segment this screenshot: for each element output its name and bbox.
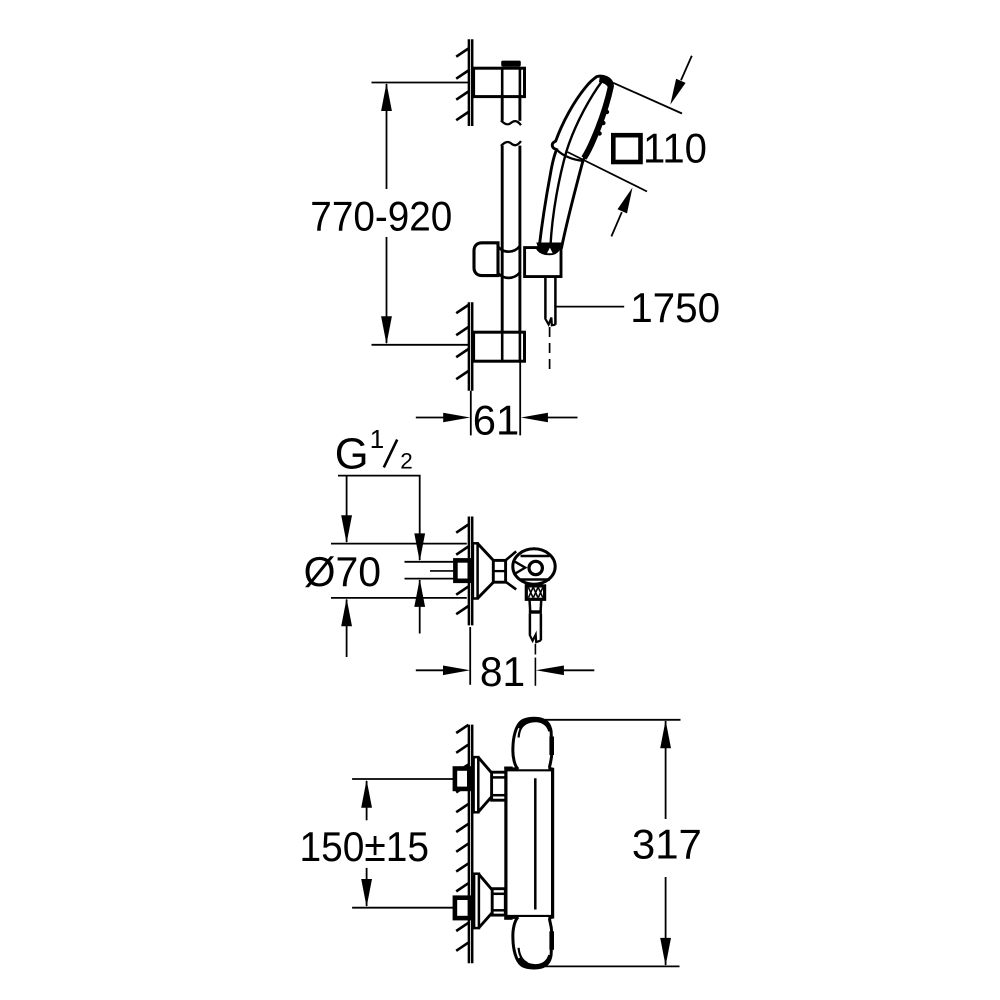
escutcheon flange (upper) [474, 757, 479, 812]
svg-text:G: G [335, 430, 369, 478]
supply union square (lower) [455, 898, 470, 918]
shower hose left edge [544, 277, 547, 318]
dim 81 left arrow (right) [443, 666, 470, 676]
dim 770-920 top extension line [372, 82, 470, 84]
escutcheon flange (lower) [474, 874, 479, 928]
escutcheon cone bottom (middle) [478, 582, 494, 598]
holder collar wave bottom [498, 273, 520, 278]
dim 770-920 line lower segment [386, 237, 388, 343]
shower rail top edge [502, 66, 521, 68]
svg-text:Ø70: Ø70 [304, 548, 382, 595]
spray rim nub 1 [605, 110, 609, 114]
body top-left step [504, 767, 512, 769]
dim G1/2 arrow up [414, 579, 425, 607]
escutcheon cone bottom (lower) [479, 913, 492, 928]
dim 150 arrow down [361, 879, 372, 907]
svg-text:2: 2 [400, 449, 413, 474]
knurl pattern [529, 588, 534, 598]
fraction slash [384, 440, 397, 468]
thermostat body inner line [534, 778, 537, 909]
top knob clip mark (dark) [549, 737, 554, 756]
dim 61 right arrow (left) [521, 413, 548, 423]
volume knob (bottom) [513, 917, 552, 968]
shower hose break (jagged) [545, 318, 556, 326]
hand shower spray-face rim (dark edge) [584, 79, 611, 158]
union nut ribs (lower) [492, 893, 505, 896]
ball center hole [529, 561, 542, 574]
hose outlet left edge [528, 599, 531, 611]
body neck top line [506, 551, 517, 560]
wall (mixer) [468, 725, 471, 964]
hose collar band [529, 610, 542, 613]
dim 317 line upper [665, 721, 667, 819]
dim G1/2 line lower [419, 580, 421, 634]
supply union square (upper) [455, 769, 469, 789]
dim 61 right extension line [519, 361, 521, 435]
dim 770-920 lower arrow (down) [381, 316, 392, 344]
hand shower face bottom line [557, 150, 583, 161]
holder cradle (dark) [537, 243, 561, 253]
hose (middle) left [529, 614, 532, 635]
wall (middle outlet) [468, 517, 471, 626]
shower hose right edge [554, 277, 557, 325]
dim 61 left extension line [470, 391, 472, 436]
dim 150 lower extension / supply centerline [352, 907, 454, 909]
svg-text:150±15: 150±15 [300, 823, 430, 870]
wall hatching (upper wall) [456, 49, 468, 57]
rail inside top bracket [501, 68, 504, 96]
ball wedge notch [513, 561, 525, 575]
dim 317 top extension [531, 719, 681, 721]
svg-text:61: 61 [473, 397, 520, 444]
holder body (ball) [513, 549, 555, 584]
leader line for 1750 [556, 306, 624, 308]
svg-text:81: 81 [480, 648, 525, 695]
svg-text:770-920: 770-920 [310, 192, 452, 239]
hex nut facet line [493, 570, 505, 572]
dim 61 left arrow (right) [443, 413, 470, 423]
diag upper arrow shaft [681, 56, 692, 80]
rail break squiggle upper [501, 120, 521, 125]
diag extension line lower [568, 152, 648, 192]
dim G1/2 extension bottom [405, 578, 455, 580]
cradle notch (white) [547, 248, 553, 254]
hand shower inner seam line [550, 81, 602, 247]
wall hatching (middle) [456, 525, 468, 533]
rail break squiggle lower [501, 141, 521, 146]
temperature knob (top) [513, 718, 552, 769]
rail inside bottom bracket [501, 332, 504, 361]
holder knob (left) [474, 243, 498, 276]
shower rail end cap (black) [501, 61, 521, 67]
hose outlet right edge [539, 599, 542, 611]
diag lower arrow (to line) [618, 188, 633, 214]
dim G1/2 extension top [405, 561, 455, 563]
top knob inner curve [519, 722, 528, 738]
hose break (middle, jagged) [530, 635, 541, 643]
dim O70 arrow down [341, 515, 352, 543]
diag upper arrow (to line) [670, 79, 685, 105]
shower rail right edge [518, 67, 521, 121]
dim 81 left tail [416, 669, 444, 671]
svg-text:317: 317 [632, 820, 702, 867]
thermostat body [506, 769, 553, 917]
escutcheon cone bottom (upper) [478, 797, 491, 812]
union nut ribs (upper) [492, 776, 506, 779]
dim 317 line lower [665, 877, 667, 965]
thermostat body top edge (thick) [505, 767, 553, 771]
dim 317 arrow up [660, 720, 671, 748]
dim G1/2 bent leader [338, 476, 420, 560]
bottom knob thick bottom band [520, 955, 551, 966]
dim 150 line upper [366, 781, 368, 820]
dim 150 line lower [366, 868, 368, 906]
wall hatching (lower rail bracket wall) [456, 305, 468, 313]
top knob thick top band [520, 720, 551, 731]
dim 150 arrow up [361, 780, 372, 808]
hose centerline / dim 81 extension [534, 644, 536, 655]
shower rail left edge [501, 67, 504, 121]
hose centerline (dashed) [549, 327, 551, 337]
dim O70 line lower [346, 600, 348, 658]
svg-text:1750: 1750 [630, 284, 720, 331]
dim 81 right arrow (left) [536, 666, 564, 676]
hose (middle) right [540, 614, 543, 641]
wall (upper, at top bracket) [468, 39, 471, 126]
diag lower arrow shaft [611, 212, 621, 236]
dim 770-920 line upper segment [386, 84, 388, 189]
dim O70 extension bottom [331, 597, 467, 599]
dim O70 arrow up [341, 598, 352, 626]
bottom knob clip mark (dark) [549, 931, 554, 950]
body bottom-left step [504, 917, 512, 919]
wall bracket (bottom) [474, 332, 525, 361]
svg-text:1: 1 [370, 424, 384, 454]
hose nut (knurled) [526, 586, 544, 599]
dim 150 upper extension / supply centerline [352, 778, 454, 780]
ball chord top [521, 555, 550, 557]
holder collar wave top [498, 246, 520, 252]
hex nut (middle) [493, 560, 505, 582]
escutcheon cone top (upper) [478, 757, 491, 773]
square symbol (head size) [613, 135, 640, 162]
wall (at lower rail bracket) [468, 302, 471, 391]
svg-text:110: 110 [643, 125, 707, 172]
dim 61 left tail [416, 417, 446, 419]
dim G1/2 arrow down [414, 533, 425, 561]
dim 317 arrow down [660, 938, 671, 966]
escutcheon cone top (lower) [479, 874, 492, 890]
spray rim nub 2 [601, 121, 605, 125]
wall bracket (top) [474, 68, 525, 96]
supply nipple (square, thick) [455, 560, 469, 580]
hand shower body outline [539, 76, 612, 247]
supply nipple centerline (dash-dot) [430, 570, 454, 572]
dim 317 bottom extension [540, 965, 680, 967]
dim 81 left extension line [469, 627, 471, 685]
dim 61 right tail [548, 417, 578, 419]
bottom knob inner curve [519, 948, 528, 963]
holder arm (right, shower cradle) [525, 246, 561, 277]
spray rim nub 3 [597, 131, 601, 135]
body neck bottom line [506, 582, 517, 590]
diag extension line upper [613, 83, 682, 114]
ball chord bottom [520, 578, 550, 580]
wall hatching (mixer) [456, 725, 468, 733]
dim 81 right tail [564, 669, 595, 671]
escutcheon flange (middle) [473, 543, 478, 598]
thermostat body bottom edge (thick) [505, 915, 553, 919]
union nut (lower) [492, 889, 505, 915]
dim O70 extension top [331, 543, 467, 545]
dim 770-920 upper arrow (up) [381, 83, 392, 111]
dim 770-920 bottom extension line [372, 344, 470, 346]
escutcheon cone top (middle) [478, 544, 494, 561]
union nut (upper) [492, 772, 506, 800]
dim O70 line upper [346, 476, 348, 542]
